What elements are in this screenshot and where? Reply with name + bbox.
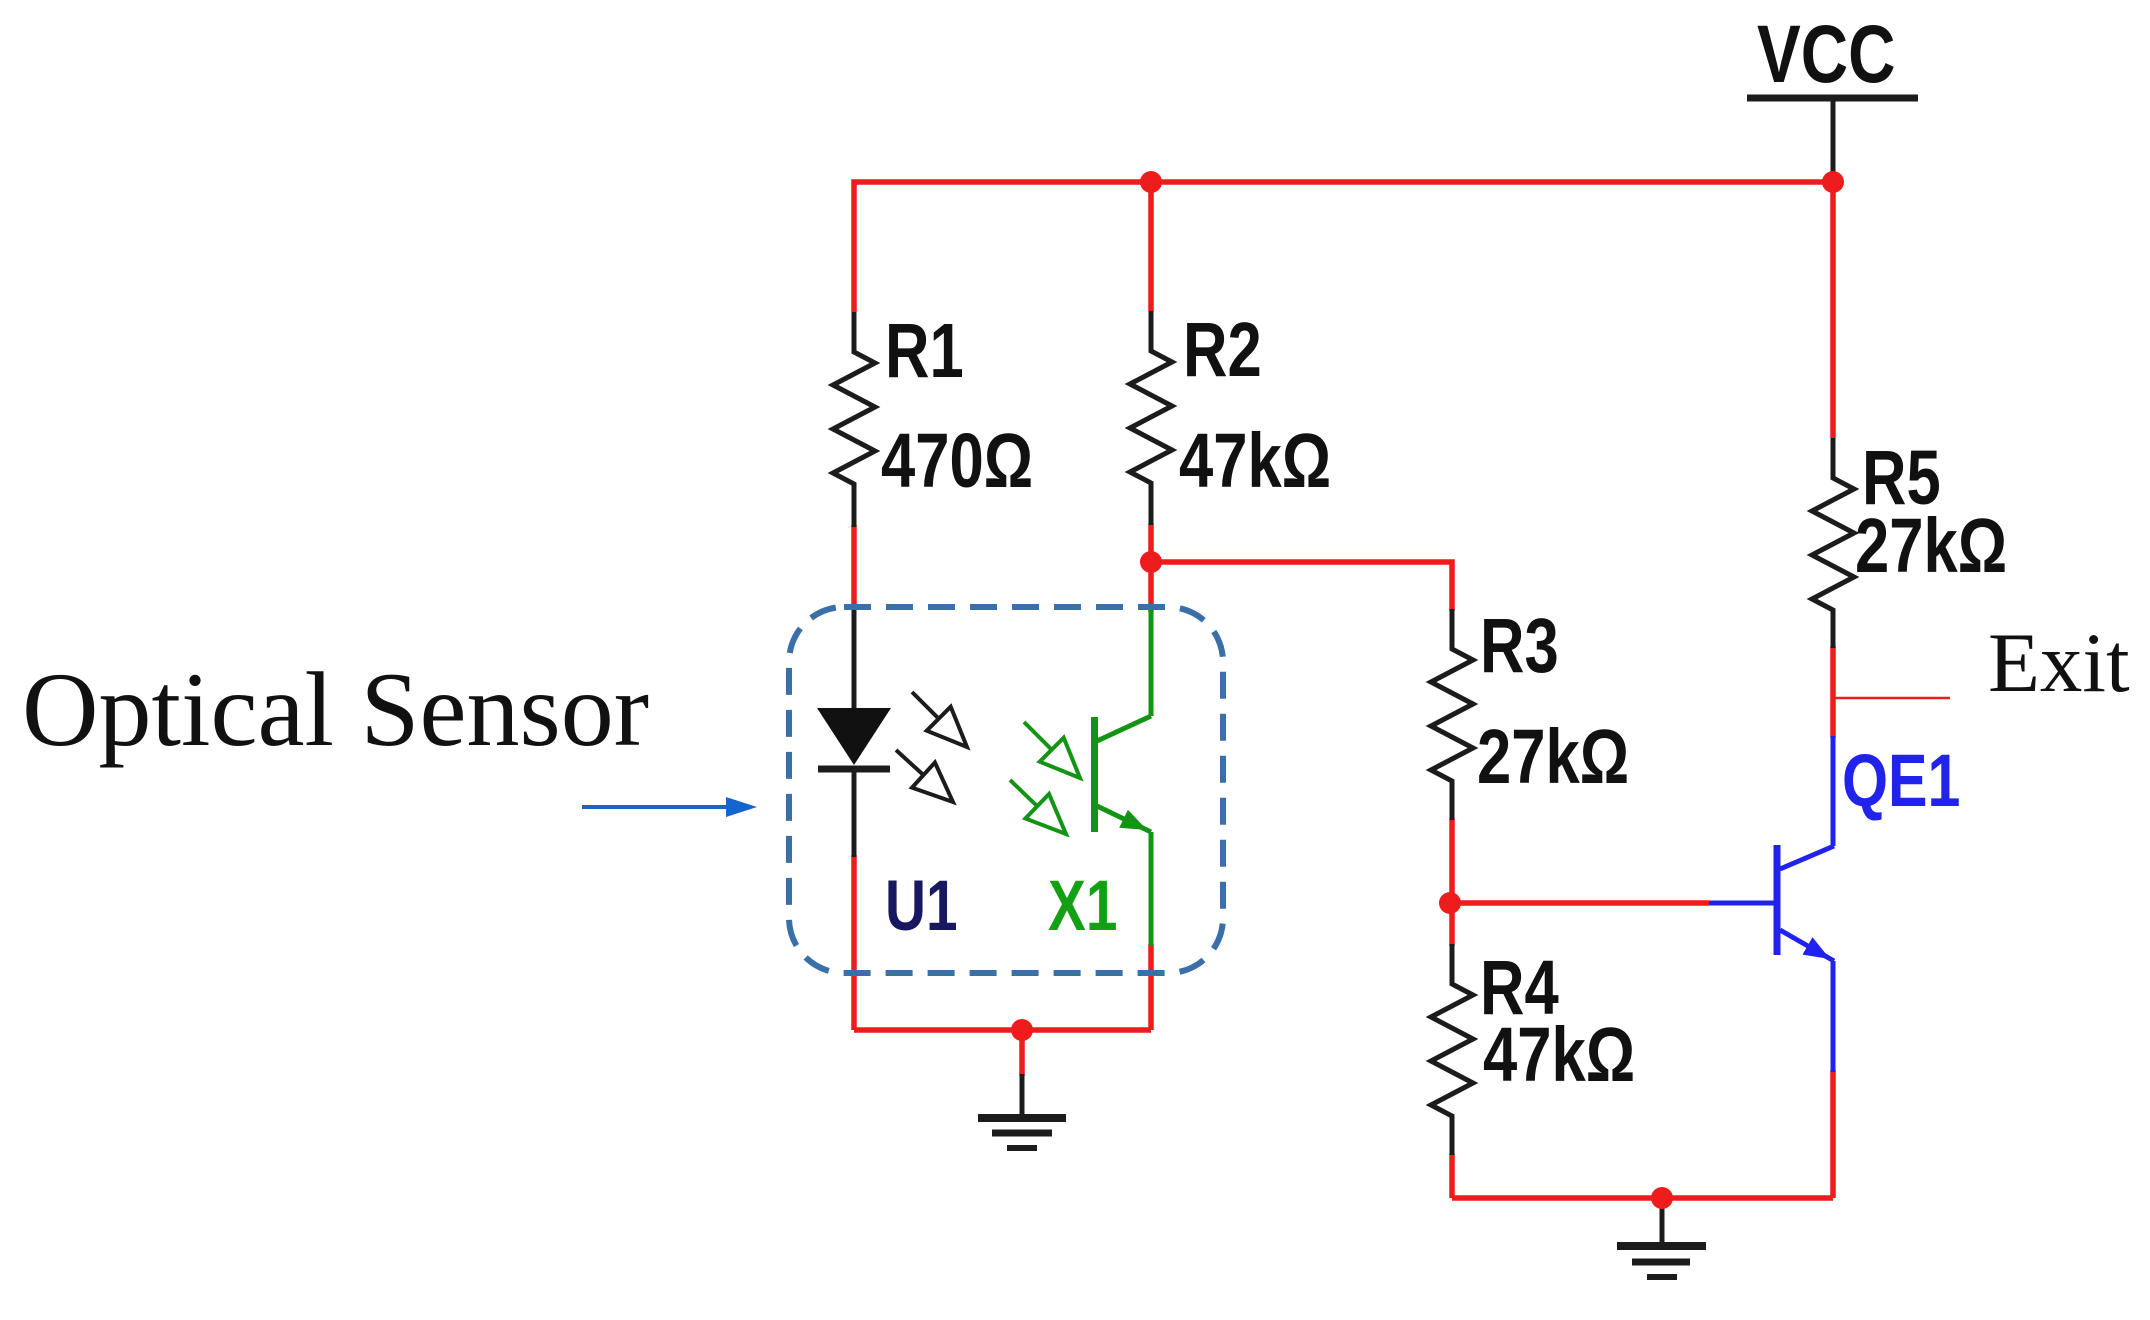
svg-text:VCC: VCC [1757,8,1896,100]
svg-text:27kΩ: 27kΩ [1855,502,2007,588]
svg-text:X1: X1 [1048,866,1117,946]
svg-text:U1: U1 [885,866,958,946]
svg-text:47kΩ: 47kΩ [1483,1011,1635,1097]
svg-text:Exit: Exit [1988,616,2130,710]
svg-text:470Ω: 470Ω [881,417,1033,503]
svg-text:R3: R3 [1480,602,1559,688]
svg-text:R1: R1 [885,307,964,393]
svg-text:Optical Sensor: Optical Sensor [22,651,649,768]
svg-text:47kΩ: 47kΩ [1179,417,1331,503]
svg-text:QE1: QE1 [1842,740,1960,823]
svg-text:27kΩ: 27kΩ [1477,713,1629,799]
svg-text:R2: R2 [1183,306,1262,392]
